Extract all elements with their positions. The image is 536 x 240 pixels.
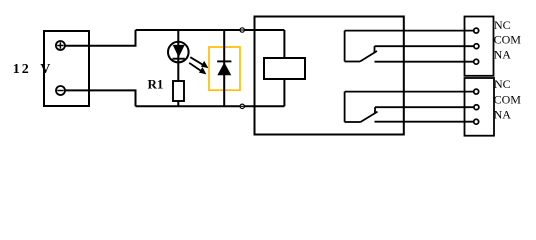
switch SW1 pivot wire: [345, 61, 360, 63]
svg-text:NC: NC: [494, 18, 511, 32]
relay module U1 outline: [255, 17, 404, 135]
coil K1 body: [264, 58, 305, 79]
pin COM2: [474, 105, 479, 110]
switch SW2 COM stub: [374, 107, 376, 113]
label 12 V: [13, 62, 51, 77]
wire top rail: [136, 29, 285, 31]
svg-text:V: V: [40, 62, 50, 77]
resistor R1 bottom lead: [177, 101, 179, 106]
pin NA2: [474, 119, 479, 124]
svg-text:NC: NC: [494, 77, 511, 91]
LED D1 circle: [168, 42, 189, 63]
switch SW1 COM wire: [375, 45, 474, 47]
switch SW1 arm: [360, 51, 377, 62]
pin NC1: [474, 28, 479, 33]
svg-text:COM: COM: [494, 93, 522, 107]
switch SW1 left vertical: [344, 31, 346, 62]
svg-text:NA: NA: [494, 48, 512, 62]
coil K1 bottom wire: [283, 79, 285, 106]
switch SW2 arm: [361, 112, 378, 122]
wire through LED down to R1: [177, 30, 179, 81]
node bottom (pin): [239, 104, 245, 108]
LED D1 triangle: [173, 45, 185, 58]
terminal +: [56, 41, 65, 50]
switch SW1 NC wire: [345, 30, 474, 32]
svg-text:NA: NA: [494, 108, 512, 122]
wire bottom rail: [136, 105, 285, 107]
LED D1 cathode bar: [173, 58, 185, 60]
output terminal block 2: [465, 78, 495, 136]
pin NC2: [474, 89, 479, 94]
pin COM1: [474, 44, 479, 49]
photodiode highlight box (orange): [209, 47, 240, 90]
wire + to top rail: [65, 30, 136, 46]
terminal block J1 (12V input): [44, 31, 89, 106]
switch SW2 pivot wire: [345, 121, 361, 123]
svg-text:12: 12: [13, 62, 31, 77]
pin NA1: [474, 59, 479, 64]
svg-text:COM: COM: [494, 33, 522, 47]
switch SW1 NA wire: [375, 61, 474, 63]
wire - to bottom rail: [65, 90, 136, 106]
switch SW2 left vertical: [344, 92, 346, 122]
coil K1 top wire: [283, 30, 285, 58]
wire photodiode branch: [223, 30, 225, 106]
photodiode D2 cathode bar: [217, 60, 231, 62]
light arrow 2: [189, 63, 206, 75]
svg-text:R1: R1: [148, 77, 164, 92]
light arrow 1: [190, 57, 208, 68]
resistor R1 body: [173, 81, 184, 101]
switch SW2 COM wire: [375, 106, 473, 108]
photodiode D2 triangle: [217, 62, 231, 75]
switch SW2 NA wire: [375, 121, 474, 123]
output terminal block 1: [465, 17, 494, 76]
switch SW2 NC wire: [345, 91, 474, 93]
node top (pin): [239, 28, 245, 32]
terminal -: [56, 86, 65, 95]
switch SW1 COM stub: [374, 46, 376, 52]
